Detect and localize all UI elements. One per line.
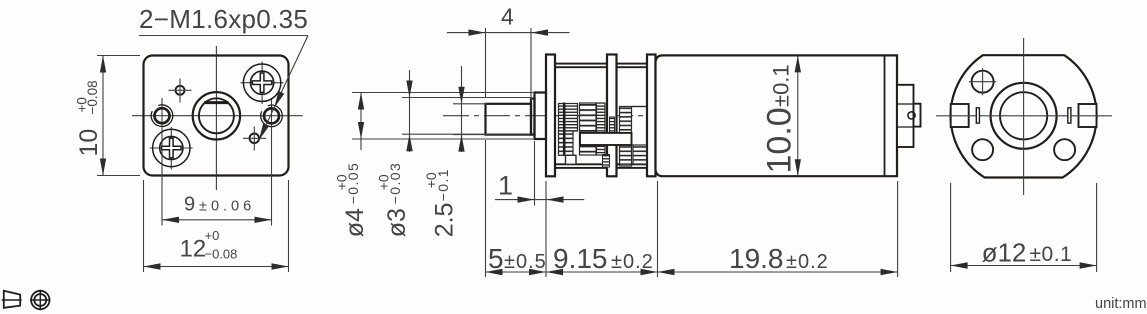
motor can body <box>656 55 898 176</box>
gear G2 <box>580 103 597 155</box>
terminal tab <box>914 104 921 127</box>
gear G5 <box>620 107 632 167</box>
leader line <box>259 36 308 141</box>
shaft collar <box>535 93 547 140</box>
gearbox plate 3 <box>647 55 656 177</box>
dimension 10 +0/-0.08 (left) <box>74 56 140 176</box>
wire horizontal centerline of rear view <box>936 115 1112 117</box>
svg-text:−0.08: −0.08 <box>205 247 238 262</box>
hole bottom-right <box>243 127 266 151</box>
leader underline <box>139 35 308 37</box>
svg-text:±0.1: ±0.1 <box>1030 243 1073 266</box>
terminal eyelet <box>908 112 915 119</box>
rear hole bottom-left <box>972 139 993 160</box>
gear G1 hub bar <box>563 103 566 156</box>
gear G1 tab <box>566 155 577 164</box>
gearbox plate 2 <box>607 55 617 177</box>
rear boss inner circle <box>1000 92 1047 139</box>
projection symbol target <box>30 290 50 311</box>
svg-text:ø4: ø4 <box>341 208 369 237</box>
output shaft hole circle <box>199 98 234 133</box>
output gear shaft bar <box>580 133 632 145</box>
gearbox tie bar top <box>550 64 650 68</box>
dimension 10.0 ±0.1 <box>761 55 802 176</box>
shaft D-flat chord <box>204 101 228 104</box>
motor can rear outline <box>951 55 1097 177</box>
dimension 2.5 +0/-0.1 <box>423 66 487 237</box>
hole top-left <box>169 79 192 103</box>
bottom extension line motor face <box>657 181 659 277</box>
dimension dia12 ±0.1 <box>951 183 1097 272</box>
motor can crimp line <box>884 55 886 176</box>
svg-text:±0.1: ±0.1 <box>769 64 794 107</box>
bottom extension line gearbox face <box>545 181 547 277</box>
terminal block line bottom <box>897 126 914 128</box>
rear hole bottom-right <box>1054 139 1075 160</box>
dimension 19.8 ±0.2 <box>658 243 898 275</box>
tapped hole M1.6 right <box>261 98 283 127</box>
wire axis centerline <box>443 115 925 117</box>
wire vertical centerline of rear view <box>1023 38 1025 195</box>
svg-text:2.5: 2.5 <box>431 203 459 238</box>
svg-text:4: 4 <box>501 4 514 30</box>
svg-text:−0.03: −0.03 <box>387 162 403 204</box>
svg-text:12: 12 <box>180 236 207 263</box>
svg-text:±0.06: ±0.06 <box>199 199 255 215</box>
svg-text:−0.1: −0.1 <box>435 168 451 201</box>
svg-text:1: 1 <box>498 171 513 201</box>
left tab <box>951 104 969 127</box>
gear G6 <box>633 145 647 165</box>
screw bottom-left <box>150 127 193 170</box>
bottom extension line motor rear <box>897 181 899 277</box>
svg-text:ø12: ø12 <box>982 238 1027 268</box>
rear screw top-left <box>969 68 996 95</box>
svg-text:ø3: ø3 <box>383 208 411 237</box>
tapped hole M1.6 left <box>151 98 173 127</box>
dimension 1 <box>495 141 584 206</box>
dimension 9 ±0.06 <box>162 127 272 226</box>
rear boss outer circle <box>991 83 1057 149</box>
dimension 9.15 ±0.2 <box>546 243 658 275</box>
dimension 5 ±0.5 <box>486 243 547 275</box>
leader arrowhead on ring <box>274 91 284 108</box>
svg-text:9.15: 9.15 <box>553 243 608 274</box>
output boss outer circle <box>193 92 240 139</box>
svg-text:±0.2: ±0.2 <box>611 251 654 273</box>
svg-text:5: 5 <box>488 243 504 274</box>
dimension dia3 +0/-0.03 <box>376 70 531 237</box>
svg-text:9: 9 <box>184 194 195 216</box>
dimension dia4 +0/-0.05 <box>334 93 534 238</box>
gear G1 <box>559 104 578 132</box>
wire horizontal centerline of front view <box>132 115 303 117</box>
right tab <box>1079 104 1097 127</box>
svg-text:−0.08: −0.08 <box>85 80 100 114</box>
bottom extension line shaft tip <box>485 140 487 277</box>
dimension 12 +0/-0.08 <box>144 180 289 272</box>
gear insert in plate2 <box>610 117 615 133</box>
terminal block <box>897 85 914 147</box>
dimension 4 (top) <box>447 4 570 101</box>
wire vertical centerline of front view <box>215 46 217 190</box>
svg-text:2−M1.6xp0.35: 2−M1.6xp0.35 <box>139 4 308 34</box>
gear block under plate2 <box>603 155 610 168</box>
right slot <box>1068 108 1071 123</box>
gearbox front face body <box>144 56 289 176</box>
motor pinion shaft line <box>632 106 648 108</box>
svg-text:10.0: 10.0 <box>761 107 799 173</box>
projection symbol cone <box>2 291 22 308</box>
svg-text:−0.05: −0.05 <box>345 162 361 204</box>
gear G1 lower <box>559 131 574 155</box>
svg-text:±0.2: ±0.2 <box>786 251 829 273</box>
svg-text:unit:mm: unit:mm <box>1095 296 1147 312</box>
leader arrowhead on hole <box>259 124 269 141</box>
gearbox plate 1 <box>546 55 555 177</box>
output shaft D-cut <box>486 104 532 135</box>
shaft round section <box>531 99 535 135</box>
svg-text:±0.5: ±0.5 <box>504 251 547 273</box>
svg-text:+0: +0 <box>205 228 220 243</box>
gear G3 <box>597 103 606 155</box>
gearbox tie bar bottom <box>550 164 650 168</box>
svg-text:19.8: 19.8 <box>729 243 784 274</box>
screw top-right <box>241 62 284 105</box>
svg-text:10: 10 <box>75 129 103 157</box>
terminal block line top <box>897 103 914 105</box>
left slot <box>976 108 979 123</box>
